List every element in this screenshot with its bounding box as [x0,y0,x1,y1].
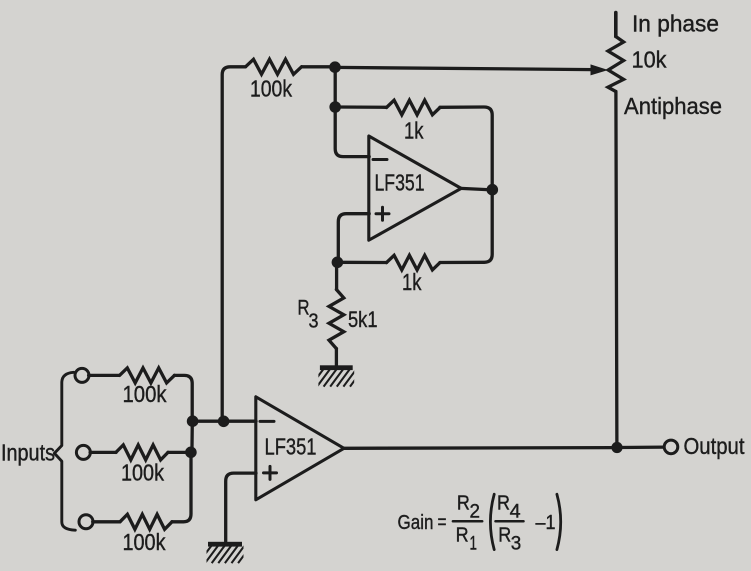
resistor 100k (input 3) [120,514,172,529]
wire: input-2 100k to summing rail [168,451,187,454]
svg-text:R: R [457,492,470,515]
wire: U1 non-inverting input to lower junction [338,214,369,262]
node: upper op-amp output junction [487,184,499,196]
node: summing junction (to op-amp) [187,415,199,427]
wire: R2 to top node [302,65,331,68]
formula: open parenthesis [490,494,494,549]
svg-text:10k: 10k [632,47,667,73]
resistor 1k (upper feedback) [387,100,441,115]
potentiometer R4 10k [608,37,624,92]
op-amp U1 LF351 (phase inverter) [369,136,461,240]
pin: U1 inverting input minus sign [373,158,387,161]
wire: potentiometer top terminal (In phase input) [614,13,618,37]
svg-text:5k1: 5k1 [348,307,378,332]
svg-text:LF351: LF351 [265,434,317,460]
svg-text:Antiphase: Antiphase [624,93,722,119]
formula: close parenthesis [557,494,561,549]
wire: summing rail middle segment [190,421,194,447]
wire: R3 to ground [335,349,338,366]
svg-text:3: 3 [309,311,319,333]
svg-text:100k: 100k [123,529,166,555]
node: junction with feedback rail [218,416,230,428]
wire: junction down to R3 [335,262,338,289]
svg-text:R: R [498,524,511,547]
svg-text:1: 1 [470,533,478,555]
wire: junction to upper 1k [335,105,386,109]
svg-text:100k: 100k [123,381,167,407]
resistor 1k (lower) [387,255,441,270]
wire: input-1 100k to summing rail [174,375,192,417]
resistor R2 100k (feedback) [246,59,302,74]
node: inverting-net junction (upper) [329,101,341,113]
terminal: input 3 [79,515,93,529]
wire: potentiometer bottom (Antiphase) down to output node [616,92,617,448]
wire: input 2 to 100k [90,451,116,454]
svg-text:Inputs: Inputs [1,440,55,466]
wire: U2 non-inverting input to ground [226,473,256,541]
op-amp U2 LF351 (summing amplifier) [256,397,344,500]
svg-text:R: R [497,492,510,515]
node: output junction [611,442,622,453]
pin: U1 non-inverting input plus sign [376,207,389,220]
svg-text:–1: –1 [536,511,556,534]
node: non-inverting-net junction (lower) [332,257,344,269]
wire: top node to potentiometer wiper arrow [335,67,593,69]
pin: U2 non-inverting input plus sign [264,466,277,479]
svg-text:3: 3 [511,533,522,555]
resistor 100k (input 2) [116,445,168,460]
svg-text:LF351: LF351 [375,170,425,196]
svg-text:100k: 100k [121,460,164,486]
svg-text:1k: 1k [404,118,424,144]
terminal: input 1 [75,368,89,382]
wire: U2 output to output node [344,446,612,450]
wire: lower junction to lower 1k [337,261,386,265]
wire: input 1 to 100k [89,374,119,377]
wire: left vertical rail from top 100k down to lower op-amp inverting input [222,67,245,422]
svg-text:4: 4 [510,501,521,523]
terminal: Output [664,440,678,454]
resistor R3 5k1 [329,290,344,349]
svg-text:R: R [456,524,469,547]
wire: input 3 to 100k [93,520,120,523]
wire: output node to Output terminal [617,445,664,449]
terminal: input 2 [76,445,90,459]
wire: summing junction to U2 inverting input [196,420,256,423]
svg-text:=: = [438,511,447,534]
svg-text:In phase: In phase [632,11,719,37]
pin: U2 inverting input minus sign [260,420,274,423]
svg-text:100k: 100k [250,76,292,102]
node: summing junction (input 2) [185,447,197,459]
brace: inputs group [54,372,75,530]
node: top junction [329,61,341,73]
svg-text:Output: Output [684,433,746,459]
svg-text:2: 2 [470,501,481,523]
svg-text:1k: 1k [402,269,422,295]
wire: U1 output to output junction [461,188,487,189]
resistor 100k (input 1) [120,368,175,383]
wire: upper 1k to right vertical rail and down to op-amp output [440,107,492,263]
wire: input-3 100k up the summing rail [172,457,191,522]
svg-text:Gain: Gain [398,511,434,534]
wire: top node down to upper op-amp inverting input [335,67,369,156]
